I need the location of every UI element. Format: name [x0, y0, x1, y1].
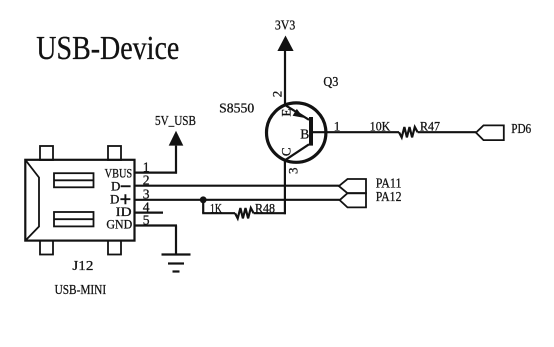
wire 3V3 to emitter	[284, 51, 286, 105]
svg-text:5V_USB: 5V_USB	[155, 113, 196, 128]
connector J12 upper contact	[54, 173, 94, 187]
wire ID pin 4 stub	[135, 212, 164, 214]
svg-text:Q3: Q3	[323, 74, 338, 89]
wire VBUS pin 1	[135, 172, 178, 174]
svg-text:1K: 1K	[210, 200, 222, 215]
wire junction down	[202, 200, 204, 213]
svg-text:PD6: PD6	[511, 122, 531, 137]
svg-text:USB-Device: USB-Device	[36, 30, 179, 67]
connector J12 lower contact	[54, 212, 94, 226]
wire 5V_USB arrow down	[175, 146, 177, 174]
svg-text:S8550: S8550	[219, 100, 254, 115]
svg-text:C: C	[278, 147, 293, 156]
connector J12 bottom mounting tab left	[40, 241, 53, 255]
wire base to resistor R47	[313, 131, 399, 133]
svg-text:3V3: 3V3	[275, 19, 295, 34]
connector J12 top mounting tab right	[108, 146, 121, 160]
wire junction to R48	[202, 212, 235, 214]
svg-text:PA11: PA11	[376, 176, 402, 191]
svg-text:PA12: PA12	[376, 190, 402, 205]
transistor Q3	[267, 103, 326, 162]
wire D- pin 2 to PA11	[135, 185, 339, 187]
svg-text:E: E	[278, 109, 293, 117]
wire GND pin 5	[135, 224, 178, 226]
svg-text:GND: GND	[106, 217, 132, 231]
wire collector vertical	[284, 160, 286, 214]
wire R48 to collector branch	[254, 212, 286, 214]
svg-text:USB-MINI: USB-MINI	[55, 282, 107, 297]
svg-text:3: 3	[286, 167, 301, 174]
wire D+ pin 3 to PA12	[135, 199, 340, 201]
svg-text:J12: J12	[72, 259, 93, 274]
connector J12 body	[25, 160, 134, 241]
svg-text:B: B	[300, 127, 309, 142]
connector J12 top mounting tab left	[40, 146, 53, 160]
wire R47 to port PD6	[418, 131, 476, 133]
port PD6	[476, 125, 504, 140]
svg-text:2: 2	[270, 91, 285, 98]
junction node on D+	[200, 196, 207, 203]
port PA11	[339, 179, 366, 193]
resistor R48	[235, 208, 254, 218]
connector J12 bottom mounting tab right	[108, 241, 121, 255]
svg-text:10K: 10K	[370, 119, 391, 134]
power 5V_USB arrow	[169, 131, 184, 146]
wire GND down to ground	[175, 226, 177, 255]
ground	[162, 255, 191, 272]
port PA12	[340, 193, 366, 207]
resistor R47	[399, 127, 418, 137]
power 3V3 arrow	[277, 36, 293, 52]
